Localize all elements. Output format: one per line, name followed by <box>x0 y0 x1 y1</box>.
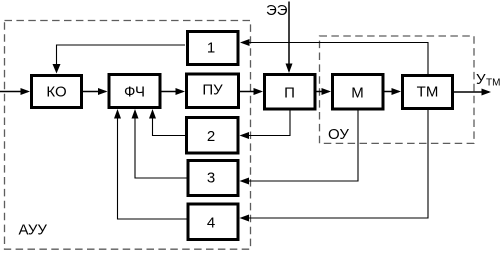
svg-text:АУУ: АУУ <box>19 222 48 239</box>
svg-text:4: 4 <box>207 215 215 232</box>
block 4 <box>188 204 238 240</box>
wire ФЧ to ПУ <box>162 88 186 95</box>
wire ЭЭ input into П top <box>286 2 293 74</box>
dashed box ОУ (controlled object boundary) <box>320 36 475 143</box>
svg-text:П: П <box>284 85 295 102</box>
svg-text:2: 2 <box>207 128 215 145</box>
svg-text:3: 3 <box>207 170 215 187</box>
block ПУ <box>187 74 239 108</box>
block 1 <box>188 32 239 65</box>
wire П to М <box>317 88 332 95</box>
wire ТМ top to block 1 (feedback) <box>240 39 428 74</box>
wire М bottom to block 3 (feedback) <box>240 111 359 185</box>
wire П bottom to block 2 (feedback) <box>240 111 291 140</box>
label input ЭЭ <box>266 2 288 19</box>
svg-text:ТМ: ТМ <box>486 78 500 89</box>
svg-text:ЭЭ: ЭЭ <box>266 2 288 19</box>
block ФЧ <box>109 75 160 108</box>
block П <box>265 75 316 110</box>
svg-text:ОУ: ОУ <box>328 126 349 143</box>
wire block 1 to КО top (feedback) <box>53 45 186 74</box>
block 3 <box>188 161 238 196</box>
wire block 3 to ФЧ bottom <box>132 109 187 178</box>
svg-text:ФЧ: ФЧ <box>124 84 145 101</box>
label АУУ <box>19 222 48 239</box>
label output УТМ <box>476 71 500 89</box>
svg-text:КО: КО <box>46 84 66 101</box>
block КО <box>32 76 82 108</box>
block 2 <box>187 118 239 154</box>
wire ТМ bottom to block 4 (feedback) <box>240 110 429 222</box>
block ТМ <box>403 76 453 109</box>
wire КО to ФЧ <box>83 88 108 95</box>
wire М to ТМ <box>385 88 402 95</box>
label ОУ <box>328 126 349 143</box>
block М <box>333 75 384 110</box>
dashed box АУУ (automatic control unit boundary) <box>5 21 251 250</box>
svg-text:ТМ: ТМ <box>417 84 439 101</box>
svg-text:М: М <box>351 85 364 102</box>
wire ПУ to П <box>240 88 263 95</box>
wire block 4 to ФЧ bottom <box>114 109 187 219</box>
svg-text:ПУ: ПУ <box>202 82 223 99</box>
svg-text:У: У <box>476 71 486 88</box>
wire ТМ to output <box>454 89 491 96</box>
svg-text:1: 1 <box>207 40 215 57</box>
wire block 2 to ФЧ bottom <box>149 109 185 136</box>
wire main input into КО <box>0 88 30 95</box>
